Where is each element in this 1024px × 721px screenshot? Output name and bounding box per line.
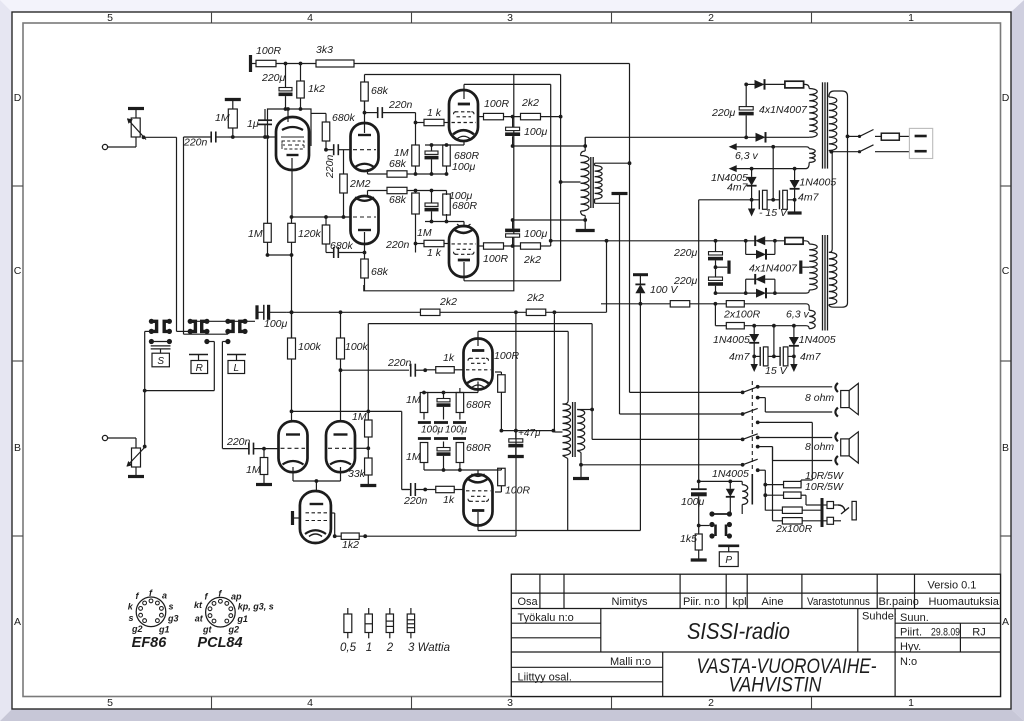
OPT1 secondary xyxy=(595,163,603,203)
primary link vertical2 xyxy=(830,152,833,253)
label 1M v5b xyxy=(352,411,367,423)
OPT1 primary xyxy=(581,137,590,220)
label 1N4005 relay xyxy=(712,468,749,480)
diode D6 1N4005 xyxy=(790,169,800,200)
mains fuse xyxy=(881,133,899,140)
label 220u PS2a xyxy=(673,247,698,259)
V5c anode pin xyxy=(315,481,317,492)
resistor 100R screen lower xyxy=(478,243,520,249)
resistor 100R hum1 xyxy=(726,301,809,311)
V3u internals xyxy=(452,104,477,139)
capacitor 100u k lower xyxy=(425,191,439,222)
OPT1 sec gnd xyxy=(595,194,628,204)
svg-text:220n: 220n xyxy=(324,154,336,179)
label 2x100R hum xyxy=(723,309,761,321)
svg-text:100μ: 100μ xyxy=(264,318,288,330)
svg-text:g1: g1 xyxy=(158,624,170,634)
node wire y255 xyxy=(266,253,294,257)
svg-text:1M: 1M xyxy=(406,394,421,406)
svg-text:100μ: 100μ xyxy=(524,228,548,240)
shield box around V1 xyxy=(268,109,312,146)
input terminal bar xyxy=(249,55,252,72)
NFB B line xyxy=(368,324,592,412)
svg-text:Br.paino: Br.paino xyxy=(879,596,919,608)
node wire y146 xyxy=(513,144,588,148)
resistor 100R hum2 xyxy=(715,304,809,329)
V6l internals xyxy=(466,474,491,511)
svg-text:100μ: 100μ xyxy=(445,425,468,436)
svg-text:Osa: Osa xyxy=(518,596,539,608)
svg-text:1k: 1k xyxy=(443,352,455,364)
selector pole3 xyxy=(741,421,760,442)
label 2k2 lower xyxy=(523,254,541,266)
svg-text:68k: 68k xyxy=(371,85,389,97)
B mid caps upper bars xyxy=(418,421,466,424)
svg-text:1M: 1M xyxy=(406,451,421,463)
B+ rail lower xyxy=(287,310,421,314)
capacitor 220n splitter upper xyxy=(326,144,351,155)
label 680k lower xyxy=(330,240,354,252)
resistor 68k fb lower xyxy=(387,187,416,193)
bias gnd a xyxy=(788,200,802,213)
mains switch pole2 xyxy=(831,145,914,153)
OPT2 core xyxy=(573,402,576,457)
wire spk1 top xyxy=(758,386,833,388)
wire shield tap xyxy=(311,112,326,114)
svg-text:Liittyy osal.: Liittyy osal. xyxy=(518,672,572,684)
svg-text:Huomautuksia: Huomautuksia xyxy=(929,596,1000,608)
label 47u xyxy=(518,428,541,439)
svg-text:3: 3 xyxy=(507,12,513,24)
resistor 68k fb upper xyxy=(387,171,416,177)
svg-text:g2: g2 xyxy=(228,625,240,635)
capacitor 220u PS1 xyxy=(739,84,754,139)
label 1u xyxy=(247,118,259,130)
wire spk1 bottom xyxy=(758,398,833,412)
V2b internals xyxy=(353,197,376,230)
resistor 68k bottom xyxy=(361,253,369,291)
V1 top pin xyxy=(286,107,290,122)
wire grid to tube V1 xyxy=(265,135,277,139)
PT2 primary xyxy=(829,252,837,304)
svg-text:1 k: 1 k xyxy=(427,247,442,259)
resistor 33k xyxy=(365,448,373,484)
svg-text:EF86: EF86 xyxy=(132,635,168,651)
svg-text:4x1N4007: 4x1N4007 xyxy=(759,104,808,116)
capacitor 220u A xyxy=(279,64,293,111)
svg-text:2k2: 2k2 xyxy=(526,292,544,304)
resistor 120k xyxy=(288,217,296,255)
resistor 2k2 rail left xyxy=(420,309,526,315)
svg-text:2M2: 2M2 xyxy=(349,178,371,190)
svg-text:100μ: 100μ xyxy=(524,126,548,138)
switch R body xyxy=(189,355,208,375)
svg-text:220n: 220n xyxy=(388,99,413,111)
wire V1 out down xyxy=(290,215,294,339)
svg-text:5: 5 xyxy=(107,12,113,24)
label 2k2 rail right xyxy=(526,292,544,304)
label 100u mid 1 xyxy=(421,425,444,436)
label 120k xyxy=(298,228,322,240)
svg-text:68k: 68k xyxy=(389,194,407,206)
label 1N4005 c xyxy=(713,334,750,346)
OPT1 sec top wire xyxy=(595,161,632,165)
wattage legend 2 xyxy=(386,608,393,638)
svg-text:Malli n:o: Malli n:o xyxy=(610,656,651,668)
relay coil xyxy=(742,481,748,514)
svg-text:15 V: 15 V xyxy=(765,365,788,377)
svg-text:1M: 1M xyxy=(215,112,230,124)
svg-text:220n: 220n xyxy=(385,239,410,251)
supply vertical x560 xyxy=(559,75,563,281)
tube V5b xyxy=(326,421,355,472)
svg-text:g2: g2 xyxy=(131,624,143,634)
svg-text:Piir. n:o: Piir. n:o xyxy=(683,596,720,608)
svg-text:100R: 100R xyxy=(505,485,531,497)
resistor 1M V1 lower xyxy=(264,137,272,255)
switch R contacts xyxy=(188,319,210,344)
resistor 2k2 supply upper xyxy=(511,113,563,119)
V4 anode wire xyxy=(464,262,561,281)
label 220n Bu xyxy=(387,357,412,369)
B mid caps lower bars xyxy=(418,437,466,440)
label 1k2 B xyxy=(342,539,359,551)
capacitor 4m7 c xyxy=(754,347,774,366)
ground 1M grid B xyxy=(256,483,272,486)
switch L body xyxy=(227,355,246,375)
V2a anode pin xyxy=(363,101,367,133)
PS1 fuse to winding xyxy=(804,84,810,88)
resistor 680R lower xyxy=(443,191,451,222)
svg-text:Piirt.: Piirt. xyxy=(900,627,922,639)
svg-text:1: 1 xyxy=(908,12,914,24)
P2 wiper node xyxy=(143,445,147,449)
V5a internals xyxy=(281,435,306,465)
switch S body xyxy=(151,346,171,367)
node wire y220 xyxy=(513,218,588,222)
OPT2 primary xyxy=(563,400,571,459)
label 4m7 d xyxy=(800,351,822,363)
svg-text:2: 2 xyxy=(386,642,394,654)
label 63v PS2 xyxy=(786,309,810,321)
label 100u Bl xyxy=(0,0,1,1)
label 1N4005 d xyxy=(799,334,836,346)
V5b internals xyxy=(328,435,353,465)
label 1M lower xyxy=(417,227,432,239)
resistor 100R screen upper xyxy=(478,113,520,119)
label 220n drive upper xyxy=(388,99,413,111)
label 100u screen upper xyxy=(524,126,548,138)
label 4x1N4007 PS1 xyxy=(759,104,808,116)
label 2M2 xyxy=(349,178,371,190)
svg-text:1N4005: 1N4005 xyxy=(799,177,836,189)
svg-text:N:o: N:o xyxy=(900,656,917,668)
svg-text:220n: 220n xyxy=(387,357,412,369)
label 1N4005 b xyxy=(799,177,836,189)
svg-text:1M: 1M xyxy=(246,464,261,476)
label 680R upper xyxy=(454,150,480,162)
svg-text:1: 1 xyxy=(908,697,914,709)
svg-text:B: B xyxy=(14,442,21,454)
resistor 2x100R a xyxy=(765,507,822,513)
label 1M lower xyxy=(248,228,263,240)
resistor 10R5W b xyxy=(765,492,822,505)
PT2 63v secondary xyxy=(809,310,815,329)
screen feed drop xyxy=(514,312,518,432)
svg-text:L: L xyxy=(234,363,240,374)
svg-text:6,3 v: 6,3 v xyxy=(786,309,810,321)
svg-text:68k: 68k xyxy=(371,266,389,278)
label 100u screen lower xyxy=(524,228,548,240)
wire y217 grid feed xyxy=(292,215,352,219)
resistor 1k upper xyxy=(416,119,451,125)
capacitor 100u Bu xyxy=(437,393,451,420)
mains plug xyxy=(909,128,932,158)
svg-text:4: 4 xyxy=(307,12,313,24)
capacitor 220u PS2b xyxy=(708,267,723,295)
svg-text:Suun.: Suun. xyxy=(900,612,929,624)
PT2 core xyxy=(823,235,828,331)
capacitor 4m7 d xyxy=(780,347,794,366)
OPT2 ct feed xyxy=(554,312,562,432)
ground 33k xyxy=(360,484,376,487)
PS2 B+ wire xyxy=(551,239,777,243)
svg-text:ap: ap xyxy=(231,591,242,601)
tube V5a xyxy=(279,421,308,472)
label 220u PS1 xyxy=(711,107,736,119)
primary link vertical xyxy=(829,136,848,307)
svg-text:Aine: Aine xyxy=(762,596,784,608)
resistor 1M grid B xyxy=(260,449,268,484)
diode D3 1N4007 xyxy=(755,236,785,247)
svg-text:8 ohm: 8 ohm xyxy=(805,441,834,453)
resistor 100R B upper xyxy=(495,372,505,433)
wire spk2 bottom xyxy=(758,447,833,461)
label 2x100R spk xyxy=(775,523,813,535)
svg-text:100R: 100R xyxy=(256,45,282,57)
svg-text:Hyv.: Hyv. xyxy=(900,641,921,653)
arrow 15V a xyxy=(751,356,758,372)
selector pole1 xyxy=(741,385,760,394)
OPT2 sec ground xyxy=(573,465,589,479)
OPT2 sec bottom xyxy=(579,453,743,467)
NFB line A xyxy=(630,64,743,393)
label 220u xyxy=(261,72,286,84)
svg-text:VAHVISTIN: VAHVISTIN xyxy=(729,674,823,697)
resistor 1M grid A xyxy=(228,101,237,138)
svg-text:4m7: 4m7 xyxy=(798,192,820,204)
bias wire xyxy=(699,199,760,201)
label 1k lower xyxy=(427,247,442,259)
resistor 1M bias lower xyxy=(412,191,420,246)
svg-text:at: at xyxy=(195,613,204,623)
label 220n Bl xyxy=(403,495,428,507)
zener line down xyxy=(639,302,643,531)
label 1k2 xyxy=(308,83,325,95)
switch wiring left xyxy=(143,331,152,446)
svg-text:100k: 100k xyxy=(345,341,369,353)
resistor 2M2 xyxy=(340,150,348,217)
switch wiring pot1 xyxy=(177,137,191,331)
label EF86 xyxy=(132,635,168,651)
capacitor 4m7 a xyxy=(759,190,773,209)
svg-text:2k2: 2k2 xyxy=(521,97,539,109)
svg-text:220n: 220n xyxy=(226,436,251,448)
capacitor 100u screen upper xyxy=(505,117,520,148)
selector pole2 xyxy=(741,396,760,416)
svg-text:33k: 33k xyxy=(348,468,366,480)
tube V6 upper xyxy=(464,339,493,390)
label 1M upper xyxy=(394,147,409,159)
svg-text:1k5: 1k5 xyxy=(680,533,697,545)
capacitor 47u xyxy=(508,429,524,457)
label 68k fb upper xyxy=(389,158,407,170)
label 1k5 xyxy=(680,533,697,545)
svg-text:1N4005: 1N4005 xyxy=(712,468,749,480)
resistor 68k top xyxy=(361,75,369,113)
label 100R xyxy=(256,45,282,57)
V3u anode wire xyxy=(464,84,553,242)
capacitor 100u screen lower xyxy=(505,218,520,246)
relay feed line xyxy=(698,200,700,482)
svg-text:A: A xyxy=(14,616,21,628)
svg-text:Työkalu n:o: Työkalu n:o xyxy=(518,612,574,624)
capacitor 220n input B xyxy=(223,443,278,455)
heater wire 2 xyxy=(729,162,810,172)
doubler diode lower xyxy=(746,274,775,293)
potentiometer P1 1M xyxy=(127,118,146,140)
tube V6 lower xyxy=(464,475,493,526)
wire rail nodes xyxy=(276,62,316,66)
label 4x1N4007 PS2 xyxy=(749,263,798,275)
svg-text:s: s xyxy=(169,601,174,611)
label 1N4005 a xyxy=(711,172,748,184)
label 220u PS2b xyxy=(673,275,698,287)
capacitor 100u Bl xyxy=(437,442,451,464)
label 4m7 c xyxy=(729,351,751,363)
bias mid vertical 2 xyxy=(772,326,780,359)
svg-text:220n: 220n xyxy=(403,495,428,507)
svg-text:2x100R: 2x100R xyxy=(723,309,761,321)
ground above 1M xyxy=(225,98,241,101)
relay core xyxy=(751,474,753,505)
top feedback rail xyxy=(354,63,630,65)
svg-text:220μ: 220μ xyxy=(673,247,698,259)
pot P1 wiper node xyxy=(142,135,177,139)
V4 internals xyxy=(452,224,477,260)
svg-text:680R: 680R xyxy=(466,399,492,411)
svg-text:g3: g3 xyxy=(167,614,179,624)
svg-text:220μ: 220μ xyxy=(711,107,736,119)
svg-text:D: D xyxy=(1002,92,1010,104)
svg-text:C: C xyxy=(1002,265,1010,277)
tube V3 upper PCL84 xyxy=(449,90,478,141)
P2 ground xyxy=(128,467,144,477)
svg-text:2x100R: 2x100R xyxy=(775,523,813,535)
EF86 pinout xyxy=(128,588,179,634)
wire pole extra xyxy=(758,470,767,510)
PCL84 pinout xyxy=(194,588,274,634)
resistor 1M Bl xyxy=(420,442,428,470)
V2a cathode pin xyxy=(367,169,369,174)
label 1k Bl xyxy=(443,494,455,506)
label 100u relay xyxy=(681,496,705,508)
headphone jack xyxy=(822,498,856,527)
svg-text:0,5: 0,5 xyxy=(340,642,357,654)
svg-text:kp, g3, s: kp, g3, s xyxy=(238,602,274,612)
diode D1 1N4007 xyxy=(755,79,785,90)
PS2 fuse to winding xyxy=(803,241,809,244)
label 680k upper xyxy=(332,112,356,124)
svg-text:1M: 1M xyxy=(248,228,263,240)
diode D2 1N4007 xyxy=(756,132,810,143)
wire cathode node lower xyxy=(425,220,464,228)
label 2k2 upper xyxy=(521,97,539,109)
resistor 680R upper xyxy=(443,145,451,174)
PS2 bottom wire xyxy=(716,291,777,295)
B+ feed from PS2 xyxy=(605,239,609,312)
svg-text:100k: 100k xyxy=(298,341,322,353)
selector pole4 xyxy=(741,436,760,473)
ground 1k5 xyxy=(691,558,707,561)
resistor 1M bias upper xyxy=(412,123,420,176)
svg-text:3k3: 3k3 xyxy=(316,44,333,56)
svg-text:100R: 100R xyxy=(494,350,520,362)
V2b anode pin xyxy=(363,232,367,254)
resistor 100R input xyxy=(251,60,277,66)
V5 cathode bus xyxy=(293,467,341,483)
label 3w xyxy=(408,642,450,654)
capacitor 220n drive Bu xyxy=(411,364,427,377)
capacitor 220n drive upper xyxy=(365,107,418,124)
svg-text:- 15 V: - 15 V xyxy=(759,207,788,219)
label 1k upper xyxy=(427,107,442,119)
bias mid vertical xyxy=(771,147,779,202)
wire cathode A lower xyxy=(368,190,388,192)
relay contact pair1 xyxy=(709,511,732,516)
svg-text:6,3 v: 6,3 v xyxy=(735,150,759,162)
label 680R lower xyxy=(452,200,478,212)
svg-text:680R: 680R xyxy=(466,442,492,454)
svg-text:2k2: 2k2 xyxy=(439,296,457,308)
tube V1 EF86 xyxy=(276,117,309,170)
svg-text:1 k: 1 k xyxy=(427,107,442,119)
label 100k left xyxy=(298,341,322,353)
zener 100V xyxy=(633,275,648,304)
label 68k bottom xyxy=(371,266,389,278)
arrow 15V b xyxy=(790,356,797,372)
svg-text:10R/5W: 10R/5W xyxy=(805,481,844,493)
V2b cathode pin xyxy=(367,191,369,197)
label 100u mid 2 xyxy=(445,425,468,436)
V5b grid wire xyxy=(355,446,370,450)
tube V2b xyxy=(351,196,379,244)
PT1 63v secondary xyxy=(809,149,815,163)
svg-text:B: B xyxy=(1002,442,1009,454)
V6u anode wire xyxy=(478,331,568,400)
box A supply loop xyxy=(364,75,561,291)
label 100u B xyxy=(264,318,288,330)
resistor 1M v5b xyxy=(365,410,373,449)
resistor heater drop xyxy=(670,301,726,307)
svg-text:2k2: 2k2 xyxy=(523,254,541,266)
V2a internals xyxy=(353,135,376,167)
wire input to pot P1 xyxy=(108,137,136,147)
PT1 core xyxy=(823,82,828,168)
potentiometer P2 1M xyxy=(127,447,146,467)
node 1M/220n xyxy=(229,135,265,139)
wire cathode A upper xyxy=(368,173,388,175)
